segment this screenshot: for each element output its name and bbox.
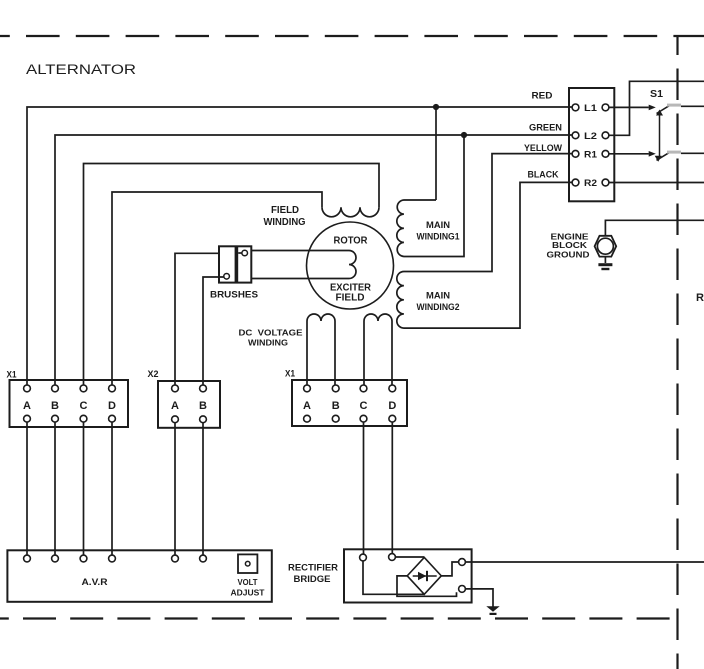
- rotor circle: [307, 222, 394, 309]
- wire X1-D to AVR: [111, 422, 113, 555]
- svg-text:A: A: [171, 400, 179, 412]
- svg-text:ADJUST: ADJUST: [231, 588, 266, 598]
- wire X1-A to AVR: [26, 422, 28, 555]
- output wire to right edge: [465, 561, 704, 563]
- wire rotor bottom to brushes: [251, 278, 349, 280]
- wire X1-C right to rectifier: [363, 422, 365, 554]
- svg-text:R1: R1: [584, 149, 598, 160]
- dashed enclosure bottom border: [0, 617, 678, 619]
- svg-text:L2: L2: [584, 131, 597, 142]
- rectifier bridge box: [344, 549, 472, 602]
- svg-text:VOLT: VOLT: [238, 577, 259, 587]
- engine block ground hexagon: [595, 236, 617, 257]
- svg-text:BRIDGE: BRIDGE: [294, 574, 331, 584]
- svg-text:DC VOLTAGE: DC VOLTAGE: [239, 328, 303, 338]
- wire X2-A to AVR: [174, 423, 176, 555]
- wire X1-C to AVR: [83, 422, 85, 555]
- switch S1 link: [659, 113, 661, 159]
- wire D : X1-D up and right to field winding left end: [112, 192, 322, 385]
- wire A : X1-A up and right to L1: [27, 107, 572, 385]
- svg-text:FIELD: FIELD: [336, 293, 365, 304]
- svg-text:MAIN: MAIN: [426, 291, 450, 301]
- svg-text:L1: L1: [584, 103, 598, 114]
- svg-text:A: A: [303, 400, 311, 412]
- volt adjust control: [238, 554, 257, 573]
- field winding coil: [322, 207, 379, 217]
- svg-text:WINDING: WINDING: [248, 338, 288, 348]
- switch S1 pole 1: [649, 105, 656, 111]
- ground symbol at rectifier: [486, 606, 499, 612]
- svg-text:GREEN: GREEN: [529, 123, 562, 133]
- svg-text:C: C: [360, 400, 368, 412]
- exciter field coil: [349, 251, 356, 279]
- svg-text:YELLOW: YELLOW: [524, 143, 562, 153]
- main winding 2 coil with wires to R1 and R2: [397, 154, 572, 329]
- junction dot on GREEN wire: [461, 132, 467, 138]
- svg-text:GROUND: GROUND: [547, 250, 590, 260]
- svg-text:X1: X1: [7, 370, 17, 380]
- svg-text:BLACK: BLACK: [528, 170, 559, 180]
- wire X1-D right to rectifier: [391, 422, 393, 553]
- wire C : X1-C up and right to field winding right end: [84, 164, 380, 386]
- ground symbol under hexagon: [604, 257, 606, 263]
- terminal block X2: [158, 381, 220, 428]
- wire X2-B to AVR: [202, 423, 204, 555]
- svg-text:D: D: [108, 400, 116, 412]
- svg-text:BLOCK: BLOCK: [552, 240, 588, 250]
- wire rectifier input left down to diamond bottom: [363, 561, 424, 594]
- svg-text:WINDING: WINDING: [264, 217, 306, 228]
- wire brushes bottom to X2-B: [203, 277, 224, 385]
- svg-text:WINDING2: WINDING2: [417, 302, 460, 312]
- wire R1 to switch S1 pole 2: [609, 153, 649, 155]
- svg-text:RED: RED: [532, 91, 554, 101]
- wire L1 to switch S1 pole 1: [609, 106, 649, 108]
- switch S1 pole 2: [649, 151, 656, 157]
- svg-text:D: D: [388, 400, 396, 412]
- svg-text:X1: X1: [285, 369, 295, 379]
- svg-text:FIELD: FIELD: [271, 205, 299, 216]
- svg-text:ALTERNATOR: ALTERNATOR: [26, 62, 136, 77]
- wire X1-B to AVR: [54, 422, 56, 555]
- AVR box: [7, 550, 271, 602]
- wire R2 to right edge: [609, 182, 704, 184]
- svg-text:RECTIFIER: RECTIFIER: [288, 563, 339, 573]
- wire rectifier to ground: [465, 589, 493, 607]
- dc voltage winding coil 1: [307, 314, 335, 385]
- rectifier diamond: [407, 557, 441, 594]
- svg-text:B: B: [51, 400, 59, 412]
- terminal block X1 right: [292, 380, 407, 426]
- diode inside diamond: [413, 575, 437, 577]
- wire B : X1-B up and right to L2: [55, 135, 572, 385]
- svg-text:ROTOR: ROTOR: [334, 236, 369, 247]
- svg-text:C: C: [80, 400, 88, 412]
- svg-text:B: B: [332, 400, 340, 412]
- svg-text:B: B: [199, 400, 207, 412]
- terminal block X1 left: [10, 380, 129, 427]
- main winding 1 coil: [397, 135, 464, 257]
- wire rectifier input to diamond top: [395, 556, 424, 558]
- svg-text:R2: R2: [584, 178, 597, 189]
- svg-text:WINDING1: WINDING1: [417, 232, 460, 242]
- dashed enclosure top border: [0, 35, 704, 37]
- dc voltage winding coil 2: [364, 314, 392, 385]
- svg-text:A.V.R: A.V.R: [82, 577, 109, 587]
- wire brushes to rotor top: [251, 250, 349, 252]
- wire diamond left to lower output terminal: [397, 576, 457, 596]
- dashed enclosure right border: [676, 36, 678, 669]
- wire diamond right to output terminal: [441, 562, 458, 576]
- connector block L1 L2 R1 R2: [569, 88, 614, 201]
- svg-text:R: R: [696, 292, 704, 304]
- svg-text:MAIN: MAIN: [426, 220, 450, 230]
- wire L2 up and to right edge: [609, 81, 704, 135]
- wire from RED junction down to main winding 1: [435, 107, 437, 200]
- brushes box: [219, 246, 251, 282]
- svg-text:S1: S1: [650, 89, 663, 100]
- engine block ground wire to right edge: [605, 220, 704, 236]
- svg-text:BRUSHES: BRUSHES: [210, 290, 258, 301]
- svg-text:X2: X2: [148, 369, 159, 379]
- junction dot on RED wire: [433, 104, 439, 110]
- wire brushes top to X2-A: [175, 253, 219, 385]
- svg-text:A: A: [23, 400, 31, 412]
